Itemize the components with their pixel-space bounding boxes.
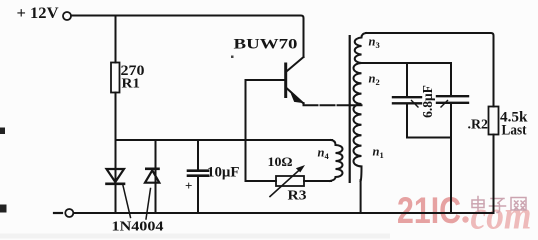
capacitor C1 10uF (188, 169, 208, 172)
wire middle rail (116, 139, 333, 141)
svg-text:R3: R3 (288, 188, 307, 203)
terminal +12V (63, 12, 71, 20)
glyph wang (511, 198, 526, 211)
wire emitter to tap (304, 104, 362, 106)
tick right of label (441, 101, 448, 108)
wire top link to right side (366, 33, 494, 107)
svg-text:n2: n2 (369, 72, 380, 88)
wire top rail (71, 16, 303, 58)
svg-text:+ 12V: + 12V (17, 5, 59, 22)
wire D1 lead (115, 140, 117, 213)
transformer core (349, 35, 351, 183)
wire bottom rail (74, 212, 494, 214)
terminal minus (65, 209, 73, 217)
diode D2 (146, 168, 158, 171)
capacitor C2 6.8uF left plates (393, 96, 421, 98)
svg-text:.R2: .R2 (468, 117, 489, 132)
svg-text:R1: R1 (122, 76, 141, 91)
svg-text:+: + (185, 178, 192, 193)
resistor R1 (111, 63, 120, 93)
wire R3 left lead (246, 180, 277, 182)
wire base vertical (245, 80, 247, 181)
wire R2 bottom lead (493, 135, 495, 214)
resistor R2 (489, 107, 499, 135)
emitter arrowhead (292, 93, 302, 102)
wire tap n3/n2 (362, 62, 452, 64)
wire R3 right lead (304, 180, 331, 182)
leader line D1 (123, 186, 131, 218)
edge speck 2 (0, 205, 7, 213)
wire cap block bottom (407, 137, 451, 139)
svg-text:1N4004: 1N4004 (112, 219, 164, 234)
wire winding bottom lead (360, 180, 362, 213)
wire R1 top lead (115, 16, 117, 63)
wire cap branch left lower (406, 105, 408, 138)
svg-text:10μF: 10μF (207, 165, 240, 181)
rheostat R3 (276, 176, 304, 186)
wire cap branch left upper (406, 63, 408, 96)
watermark 21IC (397, 190, 532, 238)
wire cap branch right lower (450, 105, 452, 214)
wire base horizontal (246, 79, 285, 81)
svg-text:n1: n1 (373, 145, 384, 161)
winding n4 (330, 140, 343, 181)
leader line D2 (146, 189, 151, 220)
wire cap branch right upper (450, 63, 452, 95)
tick left of label (412, 101, 419, 108)
svg-text:BUW70: BUW70 (234, 37, 298, 53)
transistor Q1 BUW70 (284, 64, 287, 97)
diode D1 (107, 169, 125, 182)
wire D2 lead (155, 140, 157, 213)
glyph dian (472, 197, 486, 213)
speck near transistor (231, 56, 234, 59)
edge speck 1 (0, 128, 5, 135)
svg-text:n3: n3 (369, 35, 380, 51)
capacitor C2 right plates (437, 95, 468, 97)
winding n3 n2 n1 (354, 33, 367, 181)
wire C1 lead (197, 140, 199, 170)
svg-text:Last: Last (502, 123, 527, 139)
svg-text:6.8μF: 6.8μF (420, 85, 435, 118)
svg-text:n4: n4 (318, 146, 330, 162)
R3 arrowhead (297, 166, 304, 172)
wire R1 to rail (115, 93, 117, 141)
faint scanner band bottom (0, 234, 390, 239)
glyph zi (490, 199, 506, 213)
svg-text:10Ω: 10Ω (268, 154, 293, 169)
wire C1 bottom lead (197, 177, 199, 213)
